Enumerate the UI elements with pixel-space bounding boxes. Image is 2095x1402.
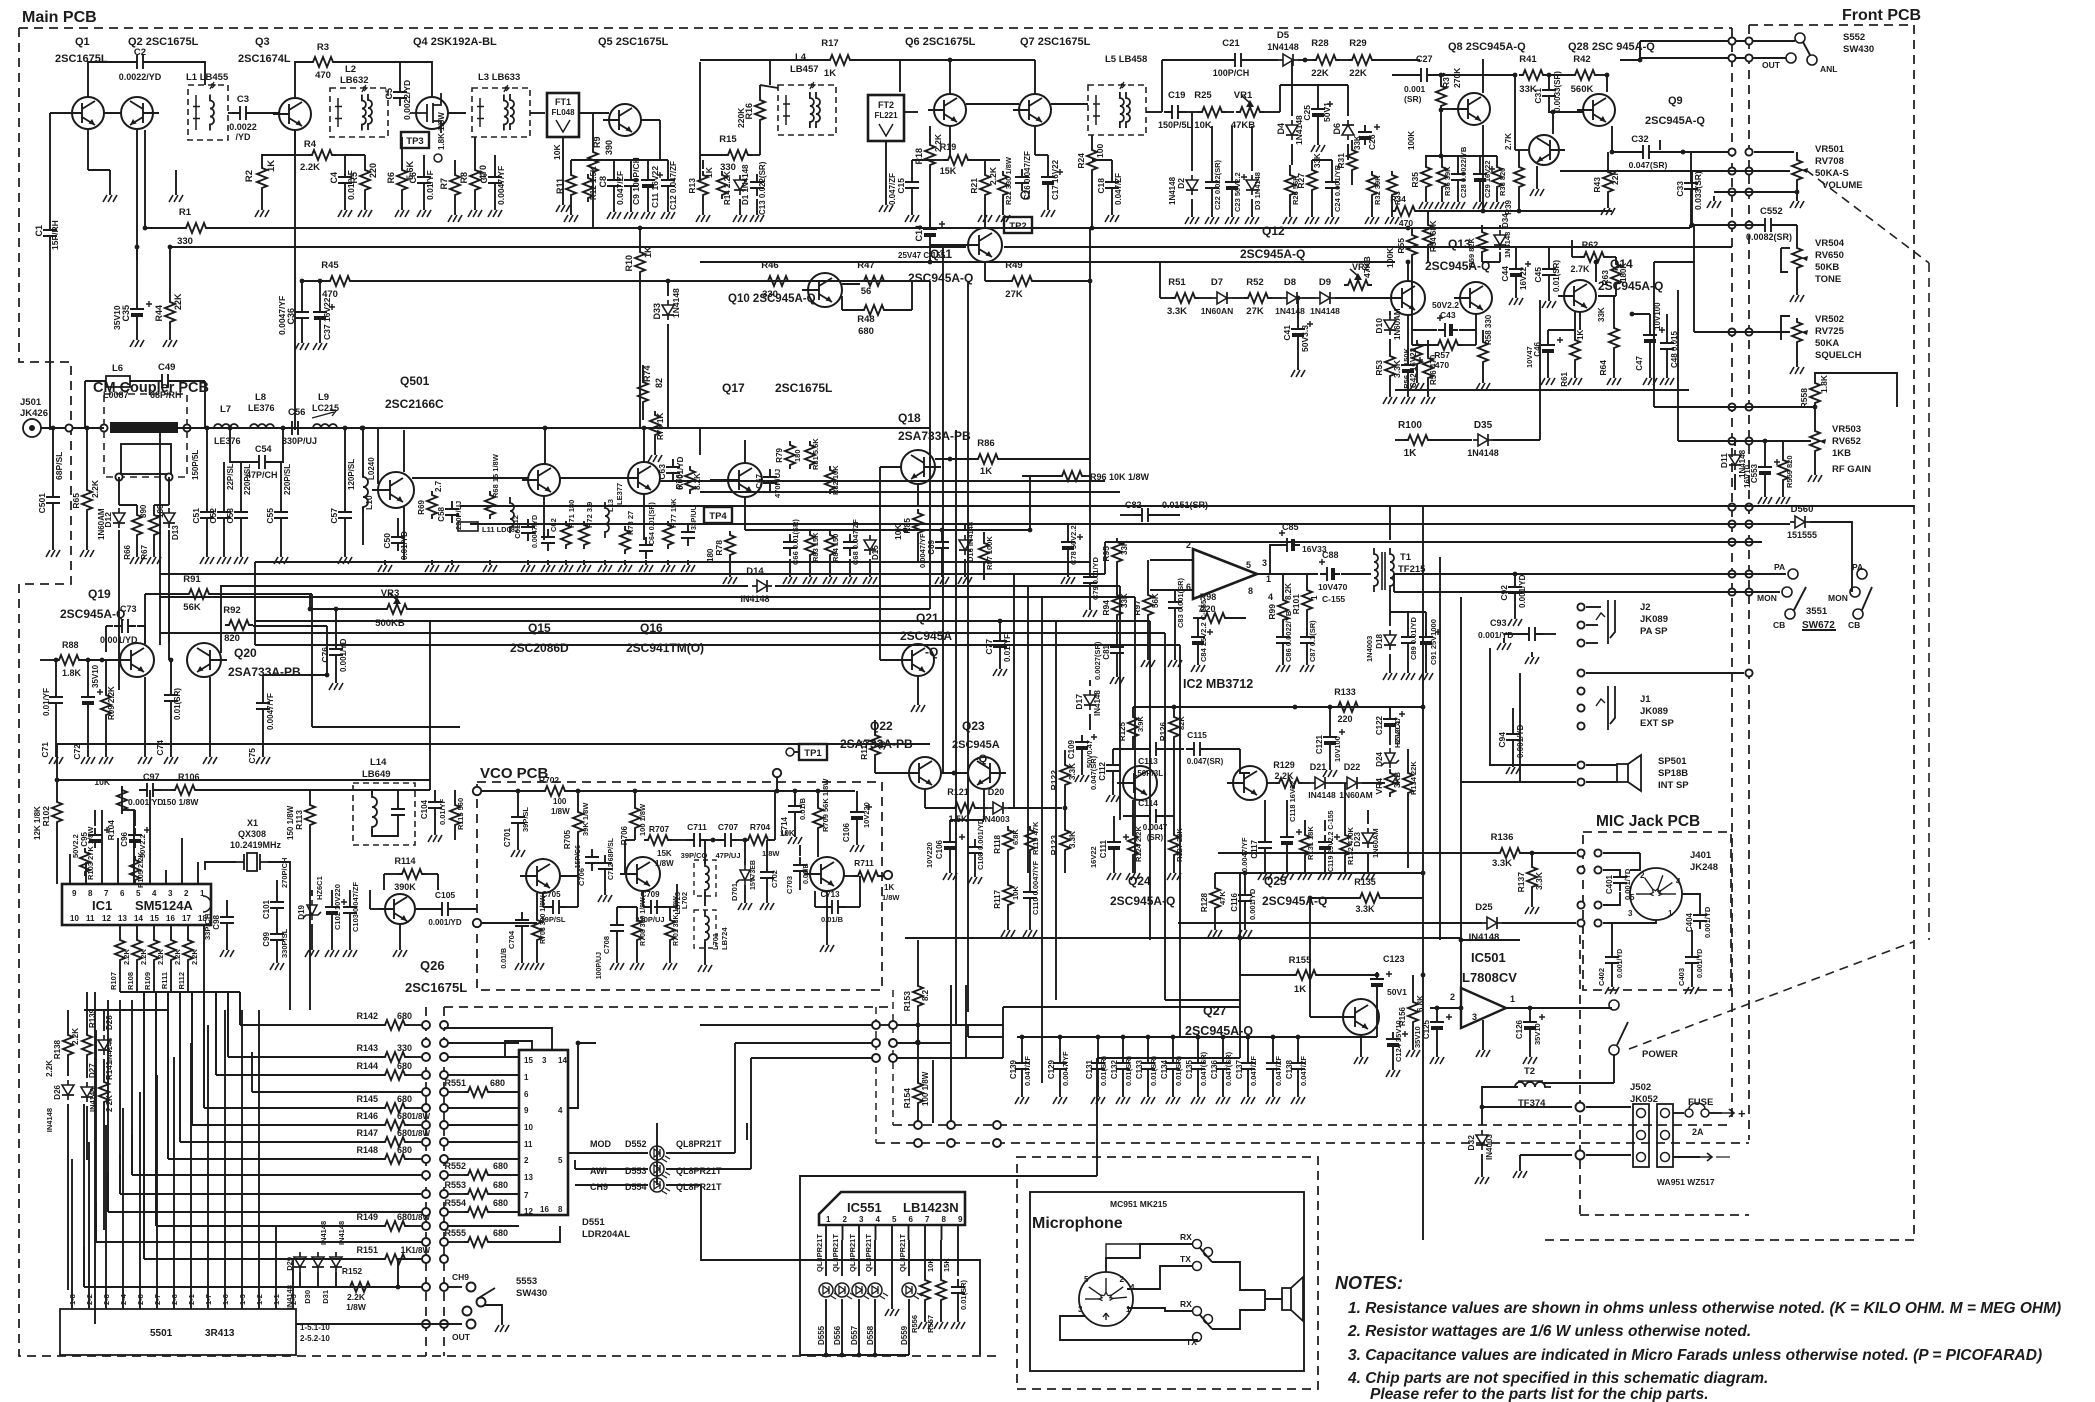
svg-text:C121: C121: [1315, 734, 1324, 754]
svg-text:FUSE: FUSE: [1688, 1097, 1713, 1108]
svg-text:150P/5L: 150P/5L: [1158, 120, 1193, 130]
ground: [517, 845, 519, 850]
wire: [1133, 706, 1423, 708]
svg-text:2.7K: 2.7K: [1570, 264, 1590, 274]
svg-text:0.0022: 0.0022: [229, 122, 257, 132]
svg-text:6.8K: 6.8K: [1011, 829, 1020, 845]
svg-text:D32: D32: [1466, 1135, 1476, 1151]
svg-text:0.047/ZF: 0.047/ZF: [615, 171, 625, 205]
jack J1 JK089 EXT SP: [1577, 687, 1584, 694]
svg-text:R97: R97: [1132, 600, 1142, 616]
svg-text:0.0047: 0.0047: [1143, 823, 1168, 832]
ground: [729, 572, 731, 577]
svg-text:SQUELCH: SQUELCH: [1815, 350, 1862, 361]
svg-text:C94: C94: [1497, 732, 1507, 748]
svg-text:D21: D21: [1310, 762, 1327, 772]
capacitor C135: [1191, 1055, 1205, 1077]
capacitor C712: [598, 855, 612, 877]
svg-text:R34: R34: [1390, 194, 1406, 204]
svg-text:0.001/YD: 0.001/YD: [1478, 630, 1513, 640]
wire: [57, 743, 930, 745]
svg-text:R78: R78: [714, 540, 724, 556]
capacitor C89: [1401, 629, 1415, 651]
svg-text:FL048: FL048: [551, 108, 575, 117]
svg-text:680: 680: [397, 1128, 412, 1138]
svg-text:C105: C105: [435, 890, 456, 900]
resistor R118: [1003, 826, 1013, 854]
diode D7: [1212, 292, 1232, 304]
svg-text:R1: R1: [179, 207, 192, 218]
svg-text:7: 7: [925, 1215, 930, 1224]
svg-text:MC951 MK215: MC951 MK215: [1110, 1199, 1167, 1209]
node: [1728, 37, 1735, 44]
svg-text:R136: R136: [1491, 832, 1514, 843]
wire: [1654, 406, 1815, 408]
node: [1728, 148, 1735, 155]
inductor L5 LB458: [1088, 85, 1146, 135]
svg-text:D560: D560: [1791, 504, 1814, 515]
svg-text:10K: 10K: [94, 777, 110, 787]
capacitor C106: [850, 805, 864, 825]
svg-text:27K: 27K: [1246, 306, 1264, 317]
svg-text:TF215: TF215: [1398, 564, 1426, 575]
transistor Q17: [722, 463, 762, 497]
node: [467, 1283, 476, 1292]
svg-text:2SC941TM(O): 2SC941TM(O): [626, 641, 704, 655]
resistor R64: [1609, 324, 1619, 352]
capacitor C29: [1473, 167, 1487, 187]
wire: [710, 479, 728, 481]
svg-text:R125: R125: [1118, 721, 1127, 741]
resistor R554: [464, 1207, 492, 1217]
resistor R94: [1112, 591, 1122, 619]
svg-text:Q3: Q3: [255, 36, 270, 48]
svg-text:R57: R57: [1434, 350, 1450, 360]
diode D23: [1362, 828, 1374, 848]
node: [884, 871, 892, 879]
svg-text:820: 820: [224, 633, 240, 644]
svg-text:9: 9: [958, 1215, 963, 1224]
svg-text:EXT SP: EXT SP: [1640, 718, 1674, 729]
test point TP4: [704, 507, 732, 523]
svg-text:D17: D17: [1074, 694, 1084, 710]
ground: [175, 190, 177, 195]
svg-text:2-5.2-10: 2-5.2-10: [300, 1334, 330, 1343]
capacitor C112: [1106, 757, 1120, 779]
svg-text:C138: C138: [1285, 1059, 1294, 1079]
svg-text:0.0047/YF: 0.0047/YF: [266, 693, 275, 730]
svg-text:R102: R102: [41, 806, 51, 827]
ground: [169, 335, 171, 340]
diode D6: [1342, 120, 1354, 140]
svg-text:150K: 150K: [1402, 347, 1411, 366]
svg-text:VR1: VR1: [1234, 90, 1253, 101]
resistor R69: [427, 491, 437, 519]
svg-text:0.01/B: 0.01/B: [798, 797, 807, 820]
resistor R59: [1477, 228, 1487, 256]
CM coupler dashed box: [104, 394, 187, 477]
svg-text:R35: R35: [1410, 172, 1420, 188]
svg-text:8: 8: [558, 1205, 563, 1214]
svg-text:R25: R25: [1194, 90, 1212, 101]
capacitor C713: [824, 900, 846, 914]
svg-text:35V10: 35V10: [91, 664, 100, 688]
ground: [1611, 982, 1613, 987]
capacitor C7: [488, 169, 502, 191]
svg-text:1-5.1-10: 1-5.1-10: [300, 1323, 330, 1332]
wire: [699, 62, 701, 180]
capacitor C49: [154, 374, 176, 388]
capacitor C704: [515, 912, 529, 934]
capacitor C138: [1291, 1055, 1305, 1077]
svg-text:16V22: 16V22: [1089, 846, 1098, 868]
wire: [983, 789, 985, 820]
capacitor C76: [329, 641, 343, 663]
resistor R15: [724, 150, 752, 160]
ground: [1371, 212, 1373, 217]
wire verticals right: [1089, 455, 1091, 562]
svg-text:D30: D30: [303, 1290, 312, 1304]
svg-text:R27: R27: [1296, 173, 1306, 189]
svg-text:50V2.2: 50V2.2: [1432, 300, 1459, 310]
svg-text:33K: 33K: [1120, 593, 1129, 608]
ground: [474, 205, 476, 210]
ground: [1306, 660, 1308, 665]
diode D16: [959, 535, 971, 555]
transistor Q11: [962, 228, 1002, 262]
svg-text:R86: R86: [977, 438, 994, 449]
svg-text:22K: 22K: [1311, 68, 1329, 79]
svg-text:C110 0.0047/YF: C110 0.0047/YF: [1031, 860, 1040, 915]
svg-text:8: 8: [942, 1215, 947, 1224]
svg-text:R42: R42: [1573, 54, 1590, 65]
capacitor C67: [763, 469, 777, 491]
resistor R74: [638, 378, 648, 406]
resistor R154: [913, 1079, 923, 1107]
svg-text:R118: R118: [993, 834, 1002, 853]
inductor L14 LB649: [353, 783, 415, 845]
ground: [1317, 140, 1319, 145]
svg-text:C116: C116: [1230, 892, 1239, 911]
svg-text:3551: 3551: [1806, 606, 1828, 617]
svg-text:0.047(SR): 0.047(SR): [1224, 1051, 1233, 1086]
capacitor C560: [951, 1279, 965, 1301]
ground: [1324, 868, 1326, 873]
svg-text:Q25: Q25: [1264, 874, 1287, 888]
svg-text:HZ12C1: HZ12C1: [1393, 720, 1402, 748]
wire: [263, 674, 327, 676]
resistor R43: [1603, 168, 1613, 196]
diode D32: [1476, 1130, 1488, 1150]
svg-text:4: 4: [1676, 877, 1681, 886]
svg-text:QL8PR21T: QL8PR21T: [676, 1182, 722, 1192]
resistor R88: [55, 655, 83, 665]
svg-text:R38 820: R38 820: [1498, 168, 1507, 196]
svg-text:7: 7: [104, 889, 109, 898]
ground row Q15 area: [431, 560, 433, 565]
svg-text:C18: C18: [1096, 178, 1106, 194]
svg-text:2SA733A-PB: 2SA733A-PB: [898, 429, 971, 443]
svg-text:L9: L9: [318, 392, 329, 403]
svg-text:50KA-S: 50KA-S: [1815, 168, 1849, 179]
svg-text:Q501: Q501: [400, 374, 430, 388]
wire: [1165, 999, 1240, 1001]
svg-text:2.2K: 2.2K: [71, 1028, 80, 1045]
svg-text:T2: T2: [1524, 1066, 1535, 1077]
svg-text:R553: R553: [444, 1180, 466, 1190]
power section dashed border: [1579, 935, 1581, 1215]
svg-text:R557: R557: [926, 1315, 935, 1333]
wire long verticals from pll: [289, 880, 291, 1010]
svg-text:0.0047/YF: 0.0047/YF: [1240, 837, 1249, 872]
svg-text:R148: R148: [356, 1145, 378, 1155]
svg-text:330: 330: [177, 236, 193, 247]
capacitor C81: [1110, 639, 1124, 661]
transistor Q3: [273, 98, 311, 130]
capacitor C129: [1053, 1055, 1067, 1077]
svg-text:2.7: 2.7: [434, 480, 443, 492]
wire stair verticals: [239, 992, 241, 1025]
svg-text:680: 680: [493, 1198, 508, 1208]
svg-text:50V1: 50V1: [1387, 987, 1407, 997]
svg-text:0.033(SR): 0.033(SR): [1693, 171, 1703, 210]
capacitor C702: [760, 864, 774, 886]
capacitor C711: [686, 833, 708, 847]
capacitor C77: [993, 633, 1007, 655]
svg-text:HZ6C1: HZ6C1: [315, 876, 324, 900]
svg-text:470P/UJ: 470P/UJ: [773, 469, 782, 498]
ground: [1002, 210, 1004, 215]
svg-text:C17 16V22: C17 16V22: [1051, 159, 1060, 200]
resistor R709: [813, 804, 823, 832]
capacitor C714: [788, 798, 802, 820]
svg-text:R11: R11: [555, 178, 565, 194]
svg-text:Microphone: Microphone: [1032, 1215, 1123, 1232]
svg-text:C62: C62: [549, 518, 558, 532]
svg-text:C9 100P/CH: C9 100P/CH: [631, 157, 641, 205]
svg-text:C708: C708: [602, 936, 611, 954]
svg-text:D23: D23: [1353, 831, 1362, 846]
svg-text:22P/SL: 22P/SL: [226, 463, 235, 490]
svg-text:R59 82K: R59 82K: [1467, 237, 1476, 267]
capacitor C19: [1164, 105, 1186, 119]
inductor L9: [307, 424, 343, 428]
ground: [1047, 205, 1049, 210]
svg-text:C501: C501: [37, 493, 47, 514]
svg-text:L0240: L0240: [367, 457, 376, 480]
svg-text:C132: C132: [1110, 1059, 1119, 1079]
ground: [1007, 925, 1009, 930]
ground: [1666, 373, 1668, 378]
resistor R100: [1404, 435, 1432, 445]
ground: [209, 752, 211, 757]
LED D559: [902, 1283, 916, 1297]
resistor R72: [579, 521, 589, 549]
svg-text:16V10: 16V10: [1743, 464, 1752, 488]
svg-text:Main PCB: Main PCB: [22, 9, 97, 26]
svg-text:R555: R555: [444, 1228, 466, 1238]
svg-text:0.01/YF: 0.01/YF: [425, 170, 435, 200]
resistor R108: [132, 936, 142, 964]
svg-text:D14: D14: [746, 566, 764, 577]
svg-text:R96 10K 1/8W: R96 10K 1/8W: [1090, 472, 1150, 482]
ground: [756, 210, 758, 215]
diode D12: [113, 508, 125, 528]
node: [1728, 520, 1735, 527]
LED D554: [650, 1178, 664, 1192]
transistor Q7: [1013, 94, 1051, 126]
svg-text:3.3K: 3.3K: [1355, 904, 1375, 914]
transistor Q501: [372, 472, 414, 508]
capacitor C131: [1091, 1055, 1105, 1077]
wire rail 390: [1395, 389, 1689, 391]
resistor R71: [561, 521, 571, 549]
svg-text:C139: C139: [1009, 1059, 1018, 1079]
svg-text:C31: C31: [1533, 88, 1543, 104]
ground: [1479, 197, 1481, 202]
svg-text:Q17: Q17: [722, 381, 745, 395]
wire: [1603, 852, 1640, 854]
svg-text:Q18: Q18: [898, 411, 921, 425]
svg-text:R128: R128: [1200, 892, 1209, 912]
svg-text:R114: R114: [394, 856, 415, 866]
svg-text:D701: D701: [730, 883, 739, 901]
ground: [1514, 614, 1516, 619]
resistor R63: [1611, 260, 1621, 288]
svg-text:1N60AM: 1N60AM: [1393, 308, 1402, 340]
svg-text:J1: J1: [1640, 694, 1651, 705]
capacitor C95: [88, 828, 102, 848]
mic wires: [1106, 1244, 1192, 1272]
resistor R97: [1143, 591, 1153, 619]
svg-text:1N4148: 1N4148: [1267, 42, 1299, 52]
resistor R45: [326, 276, 354, 286]
svg-text:1: 1: [524, 1073, 529, 1082]
diode D30: [312, 1252, 324, 1272]
svg-text:2SC1674L: 2SC1674L: [238, 53, 291, 65]
svg-text:2.2K: 2.2K: [300, 162, 320, 173]
svg-text:2SC1675L: 2SC1675L: [405, 980, 467, 995]
svg-text:14: 14: [134, 914, 143, 923]
svg-text:LB649: LB649: [362, 769, 391, 780]
ground: [136, 335, 138, 340]
capacitor C12: [661, 172, 675, 194]
svg-text:IN4148: IN4148: [1093, 690, 1102, 716]
svg-text:C118 16V22: C118 16V22: [1288, 781, 1297, 822]
transistor Q24: [1117, 766, 1157, 800]
inductor L7: [208, 424, 244, 428]
resistor R35: [1421, 163, 1431, 191]
wire: [800, 1354, 909, 1356]
ground: [1496, 197, 1498, 202]
svg-text:R91: R91: [183, 574, 201, 585]
VCO PCB dashed border: [477, 782, 882, 990]
svg-text:+: +: [1738, 1106, 1746, 1121]
capacitor C115: [1186, 742, 1208, 756]
svg-text:R45: R45: [321, 260, 339, 271]
resistor R33: [1387, 171, 1397, 199]
svg-text:15: 15: [150, 914, 159, 923]
svg-text:CH9: CH9: [590, 1182, 608, 1192]
resistor R115: [450, 801, 460, 829]
capacitor C36: [295, 304, 309, 326]
svg-text:2: 2: [184, 889, 189, 898]
diode D14: [752, 580, 772, 592]
svg-text:RV652: RV652: [1832, 436, 1861, 447]
svg-text:R5: R5: [349, 172, 359, 184]
svg-text:R129: R129: [1273, 760, 1295, 770]
wire: [950, 985, 952, 1121]
capacitor C106: [943, 835, 957, 855]
ground: [349, 945, 351, 950]
wire: [956, 1024, 1003, 1026]
svg-text:82K: 82K: [1177, 716, 1186, 730]
svg-text:R131 18K: R131 18K: [1306, 826, 1315, 860]
potentiometer VR502: [1792, 318, 1802, 346]
diode D17: [1084, 690, 1096, 710]
svg-text:D6: D6: [1332, 123, 1342, 135]
resistor R85: [913, 509, 923, 537]
svg-text:R17: R17: [821, 38, 838, 49]
svg-text:OUT: OUT: [1762, 60, 1781, 70]
svg-text:R554: R554: [444, 1198, 466, 1208]
svg-text:VR503: VR503: [1832, 424, 1861, 435]
svg-text:D558: D558: [866, 1325, 875, 1345]
svg-text:R44: R44: [154, 305, 164, 322]
svg-text:1.8K: 1.8K: [1819, 374, 1829, 393]
diode D34: [1494, 230, 1506, 250]
diode D29: [294, 1252, 306, 1272]
wire: [1150, 559, 1193, 561]
svg-text:0.047(SR): 0.047(SR): [1629, 160, 1668, 170]
svg-text:0.001/YD: 0.001/YD: [128, 797, 163, 807]
svg-text:R87 100K: R87 100K: [985, 536, 994, 570]
svg-text:C67: C67: [755, 473, 764, 488]
svg-text:1: 1: [1126, 1305, 1131, 1314]
resistor R18: [925, 141, 935, 169]
svg-text:3: 3: [542, 1056, 547, 1065]
svg-text:R14 2.2K: R14 2.2K: [723, 171, 732, 205]
svg-text:3R413: 3R413: [205, 1328, 235, 1339]
svg-text:5501: 5501: [150, 1328, 173, 1339]
resistor R125: [1128, 713, 1138, 741]
svg-text:33K: 33K: [1353, 135, 1362, 150]
svg-text:180: 180: [706, 548, 715, 562]
wire: [1089, 228, 1091, 281]
svg-text:R88: R88: [62, 640, 79, 650]
svg-text:C43: C43: [1440, 310, 1456, 320]
svg-text:0.047(SR): 0.047(SR): [1199, 1051, 1208, 1086]
svg-text:Q8 2SC945A-Q: Q8 2SC945A-Q: [1448, 41, 1526, 53]
resistor R8: [470, 166, 480, 194]
svg-text:R83 15K: R83 15K: [811, 532, 820, 562]
ground: [1425, 197, 1427, 202]
svg-text:1N4148: 1N4148: [1275, 306, 1305, 316]
svg-text:QX308: QX308: [238, 829, 266, 839]
wire AWI row: [575, 1168, 648, 1170]
svg-text:1/8W: 1/8W: [411, 1246, 430, 1255]
ground: [739, 210, 741, 215]
capacitor C73: [114, 619, 136, 633]
resistor R155: [1292, 970, 1320, 980]
ground: [1392, 1065, 1394, 1070]
resistor R37: [1436, 82, 1446, 110]
resistor R34: [1391, 206, 1419, 216]
resistor R551: [464, 1087, 492, 1097]
diode D18: [1384, 630, 1396, 650]
capacitor C64: [639, 537, 653, 559]
capacitor C58: [445, 501, 459, 523]
